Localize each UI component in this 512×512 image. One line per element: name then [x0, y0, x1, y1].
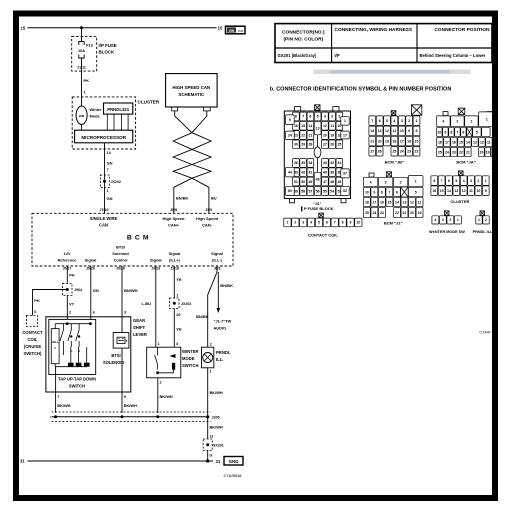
lamp symbol: [203, 353, 213, 363]
ground bus dashed upper: [52, 411, 211, 413]
svg-text:CONTACT COIL: CONTACT COIL: [308, 232, 338, 237]
svg-text:C7A/5318: C7A/5318: [223, 473, 242, 478]
svg-text:3: 3: [176, 342, 178, 346]
svg-text:2: 2: [470, 120, 472, 124]
coil element: [172, 363, 175, 370]
svg-text:GN: GN: [93, 288, 99, 293]
wire branch to contact coil: [33, 290, 68, 316]
svg-text:3: 3: [331, 115, 333, 119]
svg-text:12V: 12V: [64, 251, 71, 256]
svg-text:6: 6: [93, 310, 95, 314]
svg-text:HIGH SPEED CAN: HIGH SPEED CAN: [172, 85, 210, 90]
svg-text:7: 7: [107, 168, 109, 172]
svg-text:Reference: Reference: [58, 257, 78, 262]
wire GN cluster to BCM: [104, 143, 106, 214]
gear shift lever box: [46, 317, 131, 392]
svg-text:13: 13: [473, 140, 477, 144]
connector GX201: [203, 439, 212, 451]
svg-text:11: 11: [418, 200, 422, 204]
svg-text:1: 1: [457, 218, 459, 222]
svg-text:24: 24: [372, 211, 376, 215]
svg-text:2: 2: [485, 218, 487, 222]
svg-text:17: 17: [343, 133, 347, 137]
svg-text:8: 8: [295, 115, 297, 119]
svg-text:2: 2: [338, 115, 340, 119]
wire YE from J1/18: [173, 266, 175, 298]
svg-text:60: 60: [288, 189, 292, 193]
junction on wire 15: [80, 26, 83, 29]
svg-text:5: 5: [386, 119, 388, 123]
svg-text:19: 19: [418, 211, 422, 215]
svg-text:BK/WH: BK/WH: [210, 390, 223, 395]
hall module: [51, 329, 59, 364]
svg-text:15: 15: [459, 140, 463, 144]
svg-text:9: 9: [289, 118, 291, 122]
svg-text:5: 5: [415, 190, 417, 194]
svg-text:7: 7: [334, 221, 336, 225]
svg-text:22: 22: [395, 211, 399, 215]
svg-text:23: 23: [452, 150, 456, 154]
svg-text:1: 1: [286, 221, 288, 225]
svg-text:Control: Control: [114, 257, 128, 262]
svg-text:14: 14: [466, 140, 470, 144]
wire VT to tap switch: [66, 296, 68, 320]
svg-text:11: 11: [393, 129, 397, 133]
connector diagram BCM JA: [437, 108, 497, 157]
svg-text:30: 30: [294, 143, 298, 147]
svg-text:SOLENOID: SOLENOID: [103, 360, 124, 365]
svg-text:LEVER: LEVER: [133, 332, 147, 337]
svg-text:10: 10: [400, 129, 404, 133]
svg-text:55: 55: [323, 189, 327, 193]
wire PK fuse to cluster: [81, 71, 83, 106]
svg-text:CLUSTER: CLUSTER: [451, 199, 470, 204]
svg-text:(CRUISE: (CRUISE: [24, 344, 41, 349]
svg-text:16: 16: [407, 139, 411, 143]
svg-text:Mode: Mode: [90, 114, 101, 119]
svg-text:14: 14: [308, 124, 312, 128]
svg-text:6: 6: [448, 179, 450, 183]
svg-text:12: 12: [480, 140, 484, 144]
svg-text:2: 2: [408, 119, 410, 123]
connector J904: [63, 284, 73, 296]
svg-text:11: 11: [210, 435, 214, 439]
svg-text:(PIN NO. COLOR): (PIN NO. COLOR): [283, 37, 323, 43]
svg-text:18: 18: [438, 140, 442, 144]
svg-text:17: 17: [400, 139, 404, 143]
svg-text:J904: J904: [74, 288, 82, 292]
svg-text:20: 20: [378, 139, 382, 143]
svg-text:CONTACT: CONTACT: [22, 330, 43, 335]
svg-text:BN/BK: BN/BK: [176, 195, 189, 200]
svg-text:7: 7: [441, 179, 443, 183]
GND flag: [224, 457, 243, 466]
svg-text:58: 58: [301, 189, 305, 193]
svg-text:10: 10: [476, 189, 480, 193]
branch arrow to audio: [217, 272, 219, 310]
svg-text:High Speed: High Speed: [162, 216, 185, 221]
wire PK from J5/17: [66, 266, 68, 284]
svg-text:17: 17: [372, 200, 376, 204]
svg-text:MICROPROCESSOR: MICROPROCESSOR: [81, 135, 126, 140]
svg-text:24: 24: [445, 150, 449, 154]
svg-text:Winter: Winter: [90, 107, 103, 112]
svg-text:(ILL+): (ILL+): [169, 257, 180, 262]
switch to resistor stubs: [70, 347, 72, 363]
svg-text:24: 24: [400, 150, 404, 154]
BTSI solenoid box: [113, 333, 129, 349]
svg-text:8: 8: [433, 179, 435, 183]
winter mode indicator WM: [76, 106, 87, 124]
svg-text:9: 9: [444, 130, 446, 134]
svg-text:GN: GN: [107, 160, 113, 165]
svg-text:42: 42: [301, 171, 305, 175]
wire BN/WH from J5/26: [121, 266, 123, 333]
svg-text:AUDIO: AUDIO: [214, 325, 227, 330]
svg-text:41: 41: [308, 171, 312, 175]
svg-text:2: 2: [449, 218, 451, 222]
svg-text:BLOCK: BLOCK: [99, 50, 115, 55]
wire pin 1 to ground: [207, 368, 209, 417]
wire to GX201: [207, 417, 209, 439]
svg-text:“J1-7”TW: “J1-7”TW: [214, 318, 232, 323]
connector diagram PRNDL ILL: [476, 211, 489, 224]
svg-text:1: 1: [485, 179, 487, 183]
svg-text:CAN+: CAN+: [168, 222, 180, 227]
svg-text:JX202: JX202: [111, 180, 121, 184]
svg-text:18: 18: [392, 139, 396, 143]
svg-text:12: 12: [323, 124, 327, 128]
svg-text:9: 9: [124, 395, 126, 399]
svg-text:CONNECTOR(NO.): CONNECTOR(NO.): [282, 29, 325, 35]
svg-text:I/P FUSE: I/P FUSE: [99, 43, 117, 48]
svg-text:56: 56: [316, 189, 320, 193]
svg-text:SWITCH): SWITCH): [24, 351, 43, 356]
connector diagram I/P fuse block: [284, 105, 350, 203]
svg-text:15: 15: [21, 26, 26, 31]
wire L-BU from J9/23: [155, 266, 157, 347]
svg-text:51: 51: [294, 180, 298, 184]
svg-text:8: 8: [450, 130, 452, 134]
svg-text:0/38: 0/38: [238, 29, 244, 33]
svg-text:TAP UP-TAP DOWN: TAP UP-TAP DOWN: [58, 377, 96, 382]
svg-text:34: 34: [308, 161, 312, 165]
svg-text:BN/WH: BN/WH: [124, 288, 138, 293]
svg-text:3: 3: [124, 310, 126, 314]
svg-text:15: 15: [415, 139, 419, 143]
svg-text:C: C: [54, 346, 56, 350]
BCM dashed box: [32, 213, 233, 266]
svg-text:4: 4: [434, 218, 436, 222]
svg-text:I/P: I/P: [335, 53, 340, 58]
svg-text:BN/BK: BN/BK: [220, 283, 233, 288]
svg-text:BTSI: BTSI: [116, 245, 125, 250]
svg-text:3: 3: [385, 180, 387, 184]
PRNDL321 display: [104, 103, 133, 114]
twisted pair CAN wires: [173, 111, 211, 213]
switch 2: [70, 324, 72, 330]
svg-text:4: 4: [463, 179, 465, 183]
svg-text:21: 21: [466, 150, 470, 154]
svg-text:6: 6: [462, 130, 464, 134]
svg-text:J205: J205: [212, 416, 220, 420]
svg-text:25: 25: [365, 211, 369, 215]
svg-text:Signal: Signal: [85, 257, 97, 262]
svg-text:PRNDL: PRNDL: [216, 350, 231, 355]
svg-text:J5/8: J5/8: [170, 208, 177, 212]
svg-text:52: 52: [343, 189, 347, 193]
svg-text:2: 2: [400, 180, 402, 184]
svg-text:BCM “JB”: BCM “JB”: [385, 160, 404, 165]
svg-text:22: 22: [301, 133, 305, 137]
svg-text:4: 4: [324, 115, 326, 119]
svg-text:(ILL-): (ILL-): [212, 257, 222, 262]
svg-text:44: 44: [288, 170, 292, 174]
wire WM to microprocessor: [81, 124, 83, 130]
svg-text:3: 3: [401, 119, 403, 123]
svg-text:CAN-: CAN-: [202, 222, 213, 227]
svg-text:19: 19: [486, 150, 490, 154]
svg-text:4: 4: [310, 221, 312, 225]
svg-text:ILL.: ILL.: [216, 357, 223, 362]
svg-text:4: 4: [442, 120, 444, 124]
svg-text:20: 20: [323, 133, 327, 137]
svg-text:14: 14: [370, 129, 374, 133]
svg-text:8: 8: [381, 190, 383, 194]
svg-text:9: 9: [408, 129, 410, 133]
svg-text:5: 5: [317, 115, 319, 119]
svg-text:23: 23: [407, 150, 411, 154]
svg-text:6: 6: [379, 119, 381, 123]
svg-text:GN: GN: [107, 196, 113, 201]
wire pin 2 to ground: [157, 378, 159, 413]
svg-text:39: 39: [330, 171, 334, 175]
svg-text:2: 2: [210, 342, 212, 346]
switch blade: [157, 347, 159, 355]
svg-text:BTSI: BTSI: [111, 353, 120, 358]
svg-text:Signal: Signal: [211, 251, 223, 256]
svg-text:2: 2: [69, 310, 71, 314]
svg-text:PK: PK: [34, 298, 40, 303]
svg-text:High Speed: High Speed: [196, 216, 219, 221]
svg-text:22: 22: [415, 150, 419, 154]
svg-text:31: 31: [20, 459, 25, 464]
svg-text:BN/BK: BN/BK: [196, 314, 209, 319]
connector diagram BCM J1: [363, 172, 423, 218]
svg-text:13: 13: [403, 200, 407, 204]
svg-text:11: 11: [330, 124, 334, 128]
svg-text:16: 16: [380, 200, 384, 204]
svg-text:47: 47: [323, 180, 327, 184]
svg-text:16: 16: [294, 124, 298, 128]
svg-text:3: 3: [470, 179, 472, 183]
svg-text:10: 10: [365, 190, 369, 194]
contact arrow: [170, 354, 176, 358]
svg-text:15: 15: [387, 200, 391, 204]
svg-text:1: 1: [416, 119, 418, 123]
svg-text:L-BU: L-BU: [142, 301, 152, 306]
svg-text:25: 25: [438, 150, 442, 154]
svg-text:WINTER: WINTER: [182, 349, 199, 354]
svg-text:21: 21: [308, 133, 312, 137]
svg-text:19: 19: [330, 133, 334, 137]
svg-text:PK: PK: [69, 273, 75, 278]
switch 3: [78, 324, 80, 330]
ground bus dashed lower: [52, 421, 211, 423]
connector tab left: [172, 107, 178, 111]
svg-text:MODE: MODE: [182, 356, 195, 361]
bottom bus: [55, 366, 86, 368]
svg-text:SWITCH: SWITCH: [182, 363, 199, 368]
svg-text:4: 4: [370, 180, 372, 184]
svg-text:20: 20: [480, 150, 484, 154]
svg-text:31: 31: [337, 161, 341, 165]
connector JX202 upper: [100, 175, 109, 188]
svg-text:18: 18: [365, 200, 369, 204]
wire from node 15 to fuse: [81, 28, 83, 42]
svg-text:11: 11: [469, 189, 473, 193]
svg-text:12: 12: [410, 200, 414, 204]
wire to ground line: [207, 451, 209, 462]
svg-text:19: 19: [385, 139, 389, 143]
wire through BTSI to ground: [121, 348, 123, 413]
svg-text:SHIFT: SHIFT: [133, 325, 146, 330]
svg-text:b. CONNECTOR IDENTIFICATION SY: b. CONNECTOR IDENTIFICATION SYMBOL & PIN…: [270, 86, 452, 92]
ghost text smudge: [313, 70, 471, 75]
connector diagram contact coil: [284, 213, 362, 227]
svg-text:35: 35: [301, 161, 305, 165]
svg-text:YE: YE: [176, 327, 182, 332]
svg-text:GEAR: GEAR: [133, 318, 145, 323]
svg-text:B C M: B C M: [127, 234, 149, 241]
svg-text:12: 12: [462, 189, 466, 193]
svg-text:32: 32: [330, 161, 334, 165]
svg-text:4: 4: [393, 119, 395, 123]
svg-text:8: 8: [416, 129, 418, 133]
svg-text:26: 26: [378, 150, 382, 154]
svg-text:Signal: Signal: [150, 257, 162, 262]
svg-text:57: 57: [308, 189, 312, 193]
svg-text:COIL: COIL: [27, 337, 37, 342]
wire inside fuse box: [81, 58, 83, 71]
svg-text:1: 1: [486, 118, 488, 122]
svg-text:3: 3: [302, 221, 304, 225]
svg-text:2: 2: [294, 221, 296, 225]
svg-text:37: 37: [343, 172, 347, 176]
svg-text:GX201: GX201: [213, 444, 224, 448]
svg-text:Behind Steering Column – Lower: Behind Steering Column – Lower: [420, 53, 486, 58]
svg-text:1: 1: [210, 369, 212, 373]
svg-text:JX202: JX202: [181, 302, 191, 306]
svg-text:48: 48: [316, 177, 320, 181]
svg-text:12: 12: [385, 129, 389, 133]
connector JX202 lower: [170, 298, 180, 309]
svg-text:7: 7: [302, 115, 304, 119]
svg-text:BU: BU: [211, 195, 217, 200]
svg-text:W●NTER MODE SW: W●NTER MODE SW: [429, 230, 465, 234]
svg-text:20: 20: [410, 211, 414, 215]
svg-text:CONNECTING, WIRING HARNESS: CONNECTING, WIRING HARNESS: [335, 27, 413, 33]
svg-text:9: 9: [485, 189, 487, 193]
svg-text:11: 11: [487, 140, 491, 144]
svg-text:1: 1: [344, 119, 346, 123]
svg-text:8: 8: [342, 221, 344, 225]
svg-text:1: 1: [176, 293, 178, 297]
svg-text:22: 22: [459, 150, 463, 154]
svg-text:5: 5: [476, 130, 478, 134]
svg-text:7: 7: [456, 130, 458, 134]
flag IGN 0/38: [226, 26, 246, 34]
svg-text:CONNECTOR POSITION: CONNECTOR POSITION: [434, 27, 490, 33]
svg-text:BK/WH: BK/WH: [160, 394, 173, 399]
svg-text:14: 14: [447, 189, 451, 193]
svg-text:45: 45: [337, 180, 341, 184]
svg-text:7: 7: [388, 190, 390, 194]
wire ignition feed 15: [28, 27, 217, 29]
switch 1: [62, 324, 64, 330]
svg-text:GX201 (Black/Gray): GX201 (Black/Gray): [278, 53, 317, 58]
high speed CAN schematic box: [166, 74, 218, 107]
svg-text:SWITCH: SWITCH: [69, 384, 85, 389]
svg-text:Solenoid: Solenoid: [112, 251, 129, 256]
svg-text:9: 9: [350, 221, 352, 225]
svg-text:J1/11: J1/11: [77, 65, 86, 69]
connector diagram winter mode sw: [432, 211, 461, 224]
svg-text:27: 27: [370, 150, 374, 154]
cluster dashed box: [72, 97, 135, 149]
svg-text:13: 13: [454, 189, 458, 193]
resistor R2: [76, 363, 82, 367]
svg-text:16: 16: [452, 140, 456, 144]
svg-text:YE: YE: [176, 277, 182, 282]
svg-text:1: 1: [415, 179, 417, 183]
svg-text:5: 5: [318, 221, 320, 225]
svg-text:BK/WH: BK/WH: [210, 424, 223, 429]
svg-text:PK: PK: [84, 78, 90, 83]
svg-text:PRNDL ILL: PRNDL ILL: [473, 230, 493, 234]
microprocessor box: [75, 130, 133, 143]
svg-text:26: 26: [330, 143, 334, 147]
svg-text:GND: GND: [229, 459, 239, 464]
svg-text:16: 16: [432, 189, 436, 193]
svg-text:7: 7: [57, 395, 59, 399]
wire pin 7 to ground: [55, 367, 57, 413]
svg-text:7: 7: [371, 119, 373, 123]
fuse F13 10A: [79, 42, 84, 46]
svg-text:GN: GN: [229, 29, 235, 33]
svg-text:54: 54: [330, 189, 334, 193]
svg-text:14: 14: [395, 200, 399, 204]
svg-text:13: 13: [378, 129, 382, 133]
svg-text:15: 15: [301, 124, 305, 128]
svg-text:5: 5: [455, 179, 457, 183]
svg-text:J7/10: J7/10: [100, 208, 109, 212]
connector diagram BCM JB: [369, 105, 422, 156]
svg-text:F13: F13: [86, 44, 93, 48]
svg-text:6: 6: [309, 115, 311, 119]
svg-text:CLUSTER: CLUSTER: [138, 99, 160, 104]
svg-text:1: 1: [107, 189, 109, 193]
svg-text:WM: WM: [79, 114, 85, 118]
svg-text:21: 21: [403, 211, 407, 215]
svg-text:9: 9: [373, 190, 375, 194]
wire BN/BK from J6/3: [208, 266, 217, 347]
svg-text:C7A/P: C7A/P: [479, 330, 491, 335]
svg-text:BCM “JA”: BCM “JA”: [456, 160, 475, 165]
svg-text:15: 15: [440, 189, 444, 193]
ground bus wire: [52, 416, 208, 418]
svg-text:BK/WH: BK/WH: [124, 403, 137, 408]
